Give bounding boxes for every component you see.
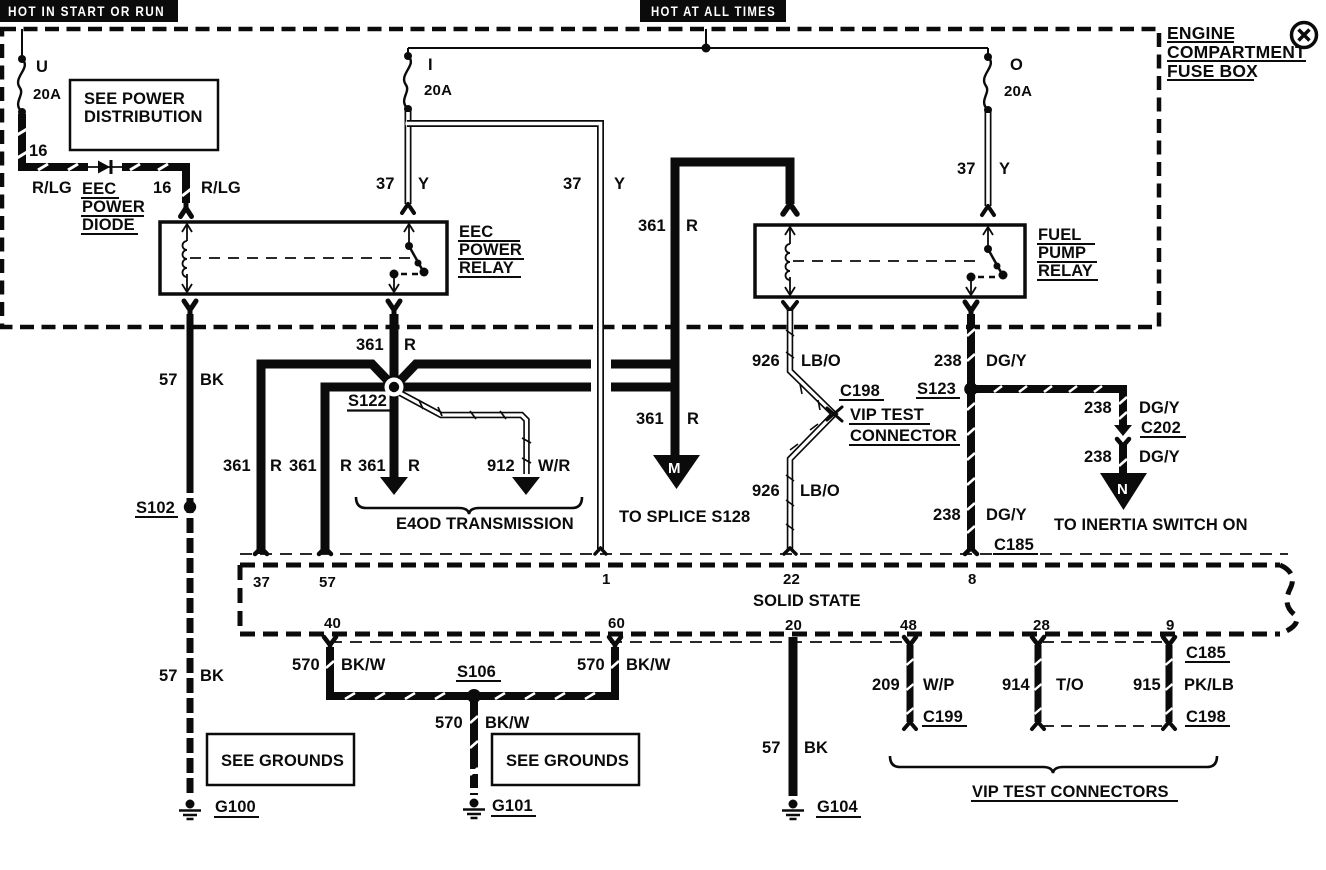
wire 914 T/O striped stub [1035, 645, 1042, 722]
svg-text:Y: Y [999, 160, 1010, 178]
svg-text:VIP TEST CONNECTORS: VIP TEST CONNECTORS [972, 783, 1169, 801]
node: fuse O bottom [984, 106, 992, 114]
wire 361 R upper bar east of Y wire [611, 360, 675, 369]
wire 57 BK dashed from S102 to G100 [187, 478, 194, 796]
wire 361 R trunk down to splice arrow [671, 358, 680, 456]
svg-text:FUEL: FUEL [1038, 226, 1081, 244]
svg-text:SEE POWER: SEE POWER [84, 90, 185, 108]
connector: EEC relay bottom-left pin (Y up) [184, 301, 196, 316]
svg-text:1: 1 [602, 571, 611, 588]
connector: wire 361 foot at harness (x325) [319, 548, 331, 554]
fuse U [18, 59, 25, 112]
node: fuse U top [18, 55, 26, 63]
fuse I [404, 56, 411, 109]
wire 238 DG/Y striped from C202 to N arrow [1119, 444, 1127, 474]
svg-text:20: 20 [785, 617, 802, 634]
svg-text:361: 361 [223, 457, 251, 475]
svg-text:BK/W: BK/W [626, 656, 671, 674]
connector: pin 28 (Y up) [1032, 637, 1044, 645]
splice S123 [964, 382, 978, 396]
relay box U1 EEC power relay [160, 222, 447, 294]
thin dashed connector line below solid state [330, 641, 908, 643]
connector: fuel pump relay bottom-right pin (Y up) [965, 302, 977, 317]
svg-text:R: R [340, 457, 352, 475]
svg-text:915: 915 [1133, 676, 1161, 694]
svg-text:8: 8 [968, 571, 977, 588]
svg-text:C198: C198 [1186, 708, 1226, 726]
fuel pump relay dashed control line [793, 260, 975, 262]
svg-text:16: 16 [153, 179, 172, 197]
wire 238 DG/Y striped from relay to C185 [967, 314, 975, 549]
box SEE GROUNDS (left) [207, 734, 354, 785]
wire 912 W/R double-line from S122 to E4OD [400, 393, 531, 474]
title box HOT AT ALL TIMES [640, 0, 786, 22]
arrow to E4OD (wire 912) [512, 477, 540, 495]
svg-text:HOT IN START OR RUN: HOT IN START OR RUN [8, 3, 165, 19]
svg-text:G104: G104 [817, 798, 858, 816]
EEC relay coil [182, 224, 192, 292]
svg-text:LB/O: LB/O [800, 482, 840, 500]
thin power bus at top [408, 47, 988, 49]
svg-text:926: 926 [752, 352, 780, 370]
svg-text:COMPARTMENT: COMPARTMENT [1167, 42, 1306, 62]
wire: stub from HOT IN START OR RUN into fuse U [21, 29, 23, 59]
connector: T/O foot (flare down) [1032, 722, 1044, 729]
svg-text:U: U [36, 58, 48, 76]
label FUEL PUMP RELAY [1037, 226, 1098, 280]
arrow M to splice S128 [653, 455, 700, 489]
wire 361 R lower bar east of Y wire [611, 383, 675, 392]
wire 361 R upper bar (S122 east branch) [394, 364, 591, 387]
wire 37 Y double-line from fuse O to fuel pump relay [985, 112, 992, 206]
svg-text:Y: Y [418, 175, 429, 193]
svg-text:361: 361 [636, 410, 664, 428]
svg-text:C199: C199 [923, 708, 963, 726]
wire 361 R lower bar (S122 west branch) [325, 387, 394, 554]
svg-text:SEE GROUNDS: SEE GROUNDS [221, 752, 344, 770]
wire 570 BK/W striped from S106 to G101 [470, 700, 478, 795]
splice S106 [467, 689, 481, 703]
connector C198 VIP test connector point [827, 407, 842, 421]
svg-text:37: 37 [957, 160, 976, 178]
svg-text:238: 238 [933, 506, 961, 524]
svg-text:HOT AT ALL TIMES: HOT AT ALL TIMES [651, 3, 776, 19]
relay box U2 fuel pump relay [755, 225, 1025, 297]
wire 16 R/LG striped from fuse U to diode [17, 114, 88, 170]
connector: fuel pump relay bottom-left pin (Y up, thin) [783, 302, 797, 311]
node: fuse I bottom [404, 105, 412, 113]
splice S122 junction [385, 378, 404, 397]
svg-text:57: 57 [319, 574, 336, 591]
svg-text:R: R [404, 336, 416, 354]
svg-text:EEC: EEC [82, 180, 116, 198]
fuel pump relay coil [785, 227, 795, 295]
wire: bus left end into fuse I [407, 48, 409, 56]
svg-text:CONNECTOR: CONNECTOR [850, 427, 957, 445]
svg-text:37: 37 [376, 175, 395, 193]
connector: pin 48 (Y up) [904, 637, 916, 645]
EEC relay switch [389, 224, 429, 292]
connector: wire 238 foot at harness (x971) [965, 548, 977, 554]
wire 570 BK/W striped from pin 40 [326, 647, 470, 699]
svg-text:PK/LB: PK/LB [1184, 676, 1234, 694]
svg-text:DIODE: DIODE [82, 216, 135, 234]
wire 361 R from EEC relay through S122 to E4OD [390, 314, 399, 478]
svg-text:DG/Y: DG/Y [1139, 399, 1180, 417]
label ENGINE COMPARTMENT FUSE BOX [1167, 23, 1306, 81]
wire 238 DG/Y striped branch to C202 [976, 386, 1127, 425]
svg-text:C185: C185 [994, 536, 1034, 554]
connector: wire 361 foot at harness (x261) [255, 548, 267, 554]
connector: pin 9 (Y up) [1163, 637, 1175, 645]
node: bus junction under HOT AT ALL TIMES [702, 44, 711, 53]
svg-text:BK/W: BK/W [485, 714, 530, 732]
svg-text:BK: BK [200, 371, 224, 389]
svg-text:57: 57 [159, 371, 178, 389]
svg-text:37: 37 [563, 175, 582, 193]
title box HOT IN START OR RUN [0, 0, 178, 22]
svg-text:W/R: W/R [538, 457, 570, 475]
svg-text:BK/W: BK/W [341, 656, 386, 674]
svg-text:40: 40 [324, 615, 341, 632]
engine compartment fuse box dashed border [2, 29, 1159, 327]
svg-text:361: 361 [289, 457, 317, 475]
diode EEC power diode [88, 160, 122, 174]
svg-text:28: 28 [1033, 617, 1050, 634]
svg-text:POWER: POWER [82, 198, 145, 216]
wire: bus right end into fuse O [987, 48, 989, 57]
connector: wire 926 foot at harness (x790) [784, 548, 796, 554]
wire 209 W/P striped stub C199 [907, 645, 914, 722]
svg-text:926: 926 [752, 482, 780, 500]
svg-text:16: 16 [29, 142, 48, 160]
svg-text:TO INERTIA SWITCH ON: TO INERTIA SWITCH ON [1054, 516, 1248, 534]
svg-text:361: 361 [638, 217, 666, 235]
connector: pin 40 (Y up) [324, 637, 336, 650]
EEC relay dashed control line [190, 257, 412, 259]
svg-text:57: 57 [762, 739, 781, 757]
svg-text:R: R [687, 410, 699, 428]
wire 57 BK thick from pin 20 to G104 [789, 637, 798, 796]
svg-text:BK: BK [200, 667, 224, 685]
svg-text:R/LG: R/LG [32, 179, 72, 197]
svg-text:O: O [1010, 56, 1023, 74]
connector: pin 60 (Y up) [609, 637, 621, 650]
svg-text:570: 570 [435, 714, 463, 732]
connector: fuel pump relay top-right pin (flare down) [982, 206, 994, 215]
ground G100 [179, 800, 201, 820]
wire 361 R thick from fuel pump relay to vertical trunk [675, 162, 790, 368]
svg-text:Y: Y [614, 175, 625, 193]
svg-text:DG/Y: DG/Y [986, 506, 1027, 524]
svg-text:209: 209 [872, 676, 900, 694]
svg-text:PUMP: PUMP [1038, 244, 1086, 262]
svg-text:ENGINE: ENGINE [1167, 23, 1235, 43]
svg-text:BK: BK [804, 739, 828, 757]
svg-text:20A: 20A [424, 82, 452, 99]
connector: EEC relay top-left pin (flare down) [181, 203, 192, 217]
svg-text:57: 57 [159, 667, 178, 685]
svg-text:9: 9 [1166, 617, 1175, 634]
connector: C199 foot (flare down) [904, 722, 916, 729]
node: fuse O top [984, 53, 992, 61]
svg-text:S122: S122 [348, 392, 387, 410]
wire 915 PK/LB striped stub [1166, 645, 1173, 722]
svg-text:570: 570 [577, 656, 605, 674]
connector: wire 37 Y foot at harness (x600) [595, 548, 606, 554]
svg-text:238: 238 [1084, 399, 1112, 417]
wire 37 Y double-line from fuse I to EEC relay [405, 111, 412, 204]
wire 361 R lower bar (S122 east branch) [394, 383, 591, 392]
svg-text:S102: S102 [136, 499, 175, 517]
svg-text:FUSE BOX: FUSE BOX [1167, 61, 1258, 81]
wire 16 R/LG striped from diode to EEC power relay pin [122, 163, 191, 203]
svg-text:SOLID STATE: SOLID STATE [753, 592, 861, 610]
splice S102 [184, 501, 196, 513]
connector C202 (male arrow / female Y) [1114, 425, 1132, 446]
node: fuse I top [404, 52, 412, 60]
svg-text:DG/Y: DG/Y [986, 352, 1027, 370]
connector: pin 9 foot (flare down) [1163, 722, 1175, 729]
svg-text:TO SPLICE S128: TO SPLICE S128 [619, 508, 750, 526]
svg-text:N: N [1117, 481, 1128, 498]
label EEC POWER DIODE [81, 180, 145, 234]
svg-text:RELAY: RELAY [1038, 262, 1093, 280]
svg-text:22: 22 [783, 571, 800, 588]
wire 570 BK/W striped from pin 60 [478, 647, 619, 699]
svg-text:I: I [428, 56, 433, 74]
arrow to E4OD (wire 361) [380, 477, 408, 495]
svg-text:DISTRIBUTION: DISTRIBUTION [84, 108, 203, 126]
svg-text:914: 914 [1002, 676, 1031, 694]
wire: stub from HOT AT ALL TIMES to bus [705, 29, 707, 48]
label EEC POWER RELAY [458, 223, 524, 277]
arrow N to inertia switch [1100, 473, 1147, 510]
wire 57 BK from EEC relay to S102 [187, 314, 194, 478]
svg-text:M: M [668, 460, 681, 477]
node: fuse U bottom [18, 108, 26, 116]
svg-text:S123: S123 [917, 380, 956, 398]
svg-text:570: 570 [292, 656, 320, 674]
svg-text:C185: C185 [1186, 644, 1226, 662]
svg-text:361: 361 [356, 336, 384, 354]
svg-text:VIP TEST: VIP TEST [850, 406, 924, 424]
svg-text:48: 48 [900, 617, 917, 634]
svg-text:C202: C202 [1141, 419, 1181, 437]
fuse O [984, 57, 991, 110]
svg-text:E4OD TRANSMISSION: E4OD TRANSMISSION [396, 515, 574, 533]
svg-text:R: R [408, 457, 420, 475]
box SEE POWER DISTRIBUTION [70, 80, 218, 150]
svg-text:R/LG: R/LG [201, 179, 241, 197]
brace VIP test connectors [890, 756, 1217, 773]
connector: EEC relay bottom-right pin (Y up) [388, 301, 400, 316]
circled X marker [1292, 23, 1317, 48]
svg-text:LB/O: LB/O [801, 352, 841, 370]
svg-text:361: 361 [358, 457, 386, 475]
ground G104 [782, 800, 804, 820]
svg-text:238: 238 [1084, 448, 1112, 466]
svg-text:R: R [686, 217, 698, 235]
svg-text:S106: S106 [457, 663, 496, 681]
thin dashed harness line above solid state [240, 553, 1288, 555]
svg-text:T/O: T/O [1056, 676, 1084, 694]
svg-text:POWER: POWER [459, 241, 522, 259]
svg-text:C198: C198 [840, 382, 880, 400]
svg-text:R: R [270, 457, 282, 475]
svg-text:G101: G101 [492, 797, 533, 815]
connector: EEC relay top-right pin (flare down) [402, 204, 414, 213]
brace E4OD transmission [356, 497, 582, 514]
svg-text:RELAY: RELAY [459, 259, 514, 277]
box SEE GROUNDS (right) [492, 734, 639, 785]
wire 926 LB/O double-line zigzag [786, 310, 834, 549]
svg-text:W/P: W/P [923, 676, 954, 694]
svg-text:912: 912 [487, 457, 515, 475]
svg-text:G100: G100 [215, 798, 256, 816]
svg-text:SEE GROUNDS: SEE GROUNDS [506, 752, 629, 770]
dashed connector box T/O [1043, 642, 1165, 726]
wire 361 R upper bar (S122 west branch) [261, 364, 394, 554]
svg-text:DG/Y: DG/Y [1139, 448, 1180, 466]
wire 37 Y double-line branch to solid state pin 1 [406, 124, 601, 550]
fuel pump relay switch [966, 227, 1008, 295]
svg-text:60: 60 [608, 615, 625, 632]
svg-text:20A: 20A [1004, 83, 1032, 100]
solid state module dashed box [240, 565, 1297, 634]
svg-text:238: 238 [934, 352, 962, 370]
ground G101 [463, 799, 485, 819]
svg-text:37: 37 [253, 574, 270, 591]
connector: fuel pump relay top-left pin (flare down) [783, 204, 797, 214]
svg-text:20A: 20A [33, 86, 61, 103]
svg-text:EEC: EEC [459, 223, 493, 241]
